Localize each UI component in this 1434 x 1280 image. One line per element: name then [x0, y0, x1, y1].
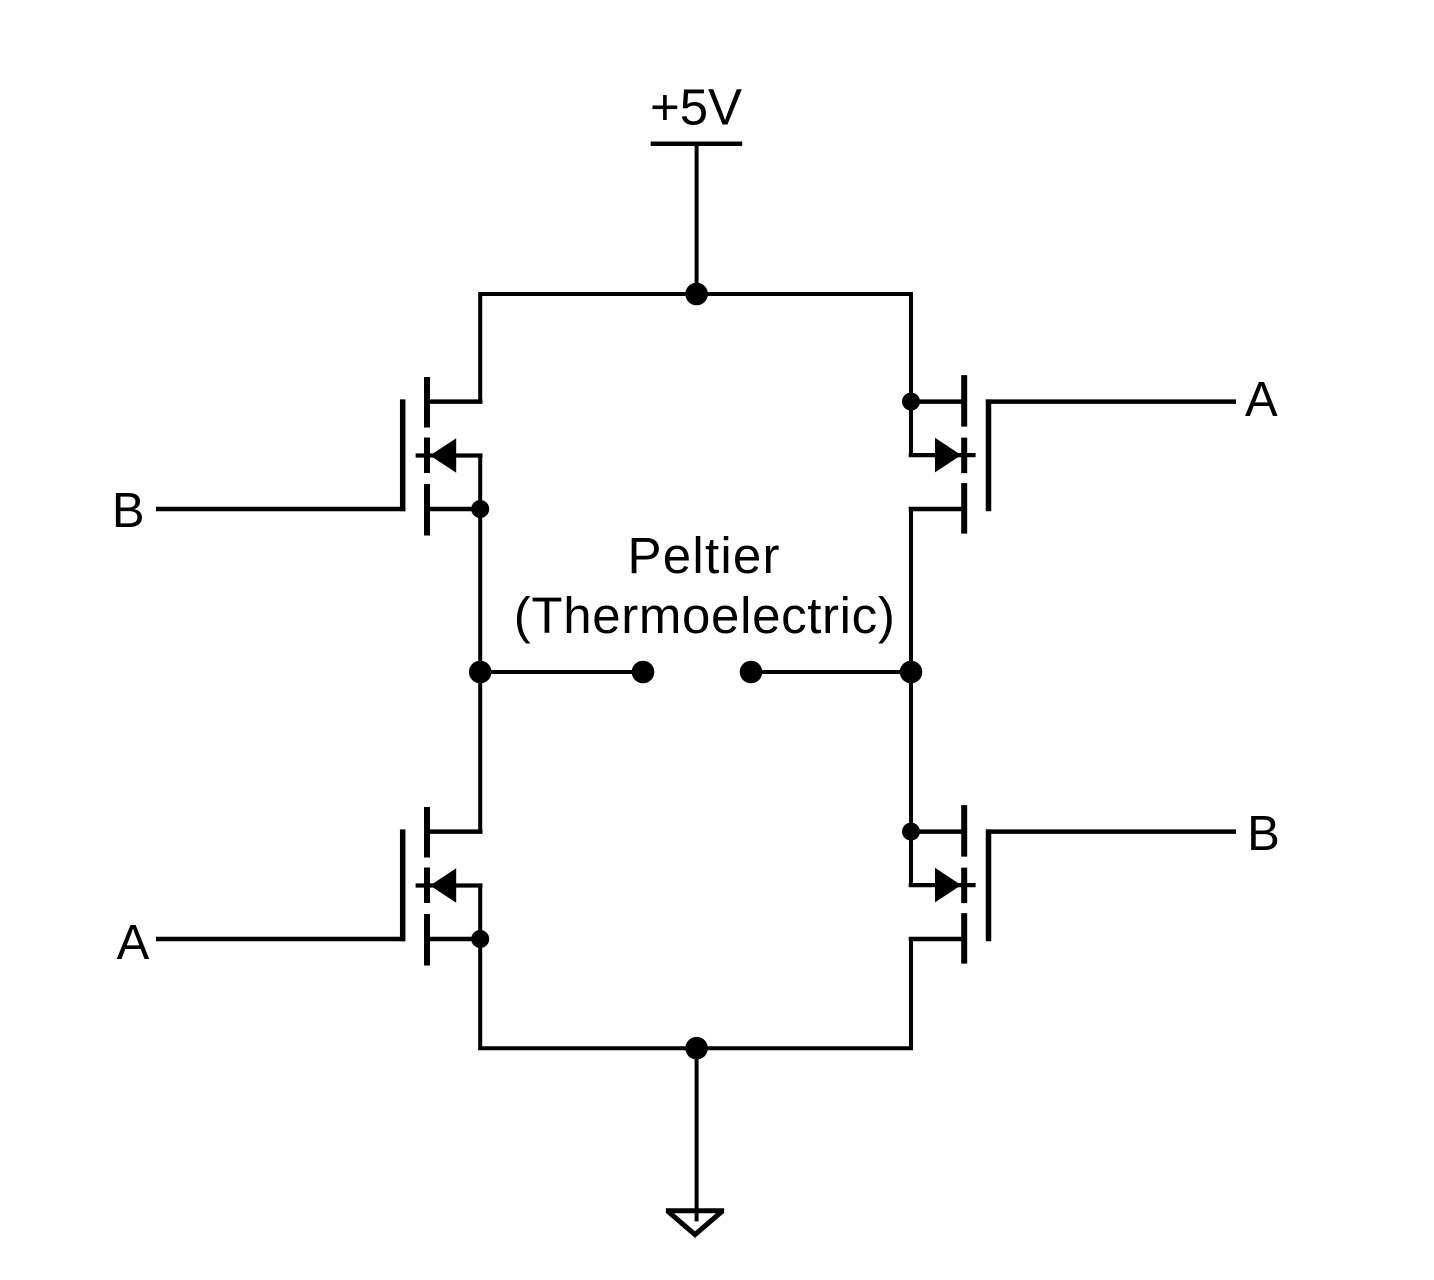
junction: top rail dot — [685, 283, 708, 306]
svg-text:Peltier: Peltier — [628, 527, 780, 584]
junction: Q2 drain dot — [902, 393, 920, 411]
transistor Q3 (bottom-left MOSFET) — [403, 807, 483, 966]
wire: bottom rail with left and right risers — [480, 886, 911, 1049]
wire: Peltier left terminal — [480, 670, 643, 674]
ground symbol — [666, 1208, 724, 1213]
transistor Q4 (bottom-right MOSFET) — [909, 805, 989, 964]
wire: left mid vertical (Q1 source to Q3 drain) — [478, 456, 482, 832]
wire: top rail with left and right drops — [480, 294, 911, 456]
wire: gate lead of Q1 — [156, 507, 405, 512]
svg-text:+5V: +5V — [650, 79, 742, 136]
svg-text:A: A — [117, 916, 150, 970]
wire: gate lead of Q2 — [986, 399, 1236, 404]
wire: +5V supply to top rail — [695, 144, 699, 294]
svg-text:B: B — [112, 484, 145, 538]
junction: Q1 source dot — [471, 500, 489, 518]
transistor Q2 (top-right MOSFET) — [909, 375, 989, 534]
svg-text:B: B — [1247, 807, 1280, 861]
junction: right rail mid dot — [900, 661, 923, 684]
junction: bottom rail dot — [685, 1037, 708, 1060]
wire: bottom rail to ground — [695, 1048, 699, 1221]
wire: gate lead of Q3 — [156, 937, 405, 942]
svg-text:(Thermoelectric): (Thermoelectric) — [514, 587, 895, 644]
wire: right mid vertical (Q2 source to Q4 body) — [909, 509, 913, 886]
power +5V supply bar — [651, 141, 743, 146]
junction: left rail mid dot — [469, 661, 492, 684]
node: Peltier terminal 2 dot — [740, 661, 763, 684]
svg-text:A: A — [1245, 373, 1278, 427]
junction: Q4 drain dot — [902, 823, 920, 841]
wire: Peltier right terminal — [751, 670, 911, 674]
node: Peltier terminal 1 dot — [632, 661, 655, 684]
wire: gate lead of Q4 — [986, 829, 1236, 834]
transistor Q1 (top-left MOSFET) — [403, 377, 483, 536]
junction: Q3 source dot — [471, 930, 489, 948]
